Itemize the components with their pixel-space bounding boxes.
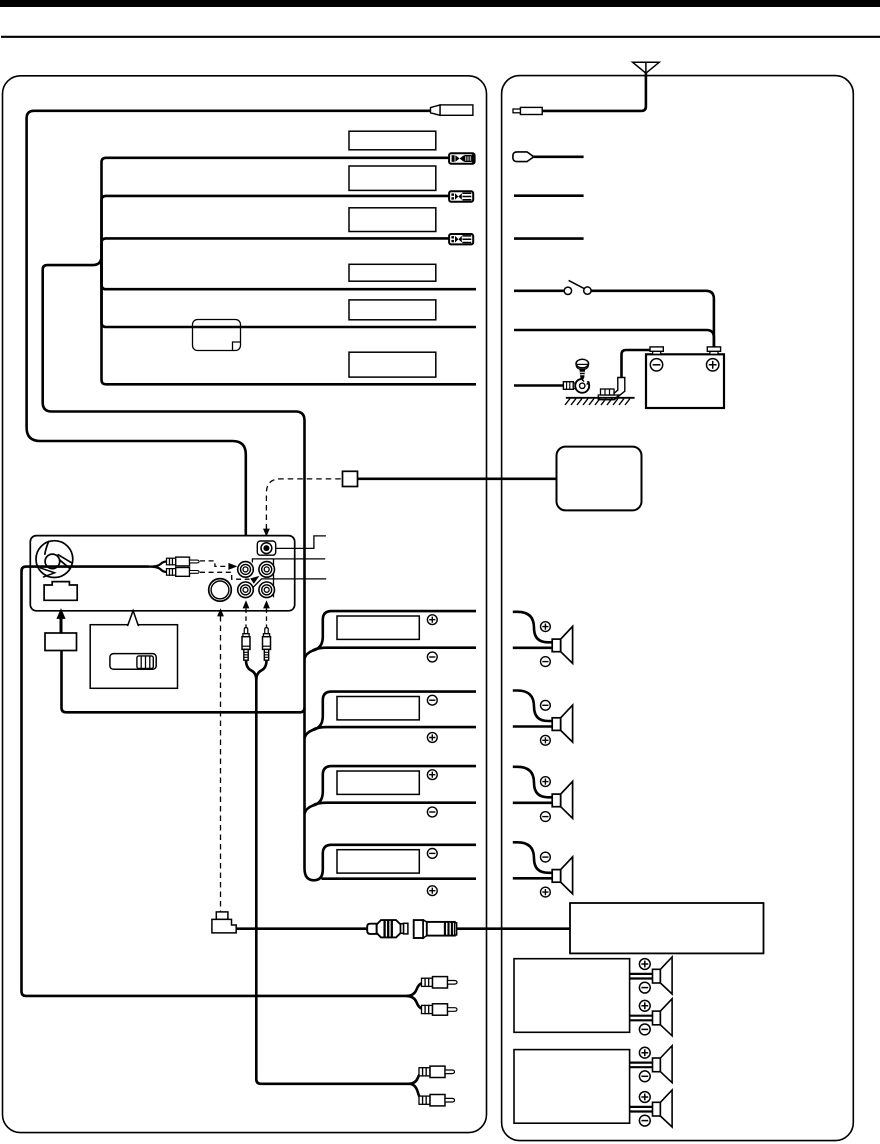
- RCA jack L-top: [238, 562, 254, 578]
- amplifier label box: [570, 903, 764, 953]
- RCA cord Y-split near head unit: [149, 562, 167, 572]
- polarity signs sub speaker: [639, 959, 650, 970]
- ISO connector mark: [44, 582, 77, 601]
- speaker front L: [552, 626, 572, 663]
- RCA plug to jack (top): [167, 557, 200, 566]
- callout line: line out bottom: [252, 579, 326, 588]
- wire: to amplifier: [457, 927, 570, 930]
- dashed lead plug-top to jack: [200, 561, 228, 567]
- RCA pair 2 Y-split: [409, 1072, 423, 1100]
- RCA plug out 2a: [419, 1066, 455, 1077]
- ring terminal lug taper: [573, 383, 579, 389]
- wire: power lead 1: [102, 196, 450, 264]
- arrow into head unit: [60, 618, 63, 634]
- wire: speaker pair front L +: [304, 611, 476, 659]
- DIN changer connector: [209, 579, 232, 602]
- wire: line-in cord merge: [246, 660, 409, 1084]
- label box pair rear R: [337, 850, 419, 873]
- polarity signs speaker rear L: [541, 777, 551, 787]
- ring terminal crimp: [563, 382, 573, 390]
- RCA plug out 2b: [419, 1095, 455, 1106]
- polarity signs pair front R: [427, 695, 437, 705]
- RCA pair 1 Y-split: [406, 983, 422, 1008]
- wire: remote lead to harness: [62, 651, 305, 713]
- wire: speaker rear L + lead: [513, 767, 552, 798]
- wire: sub speaker leads: [630, 1016, 653, 1021]
- wire: speaker front L + lead: [513, 612, 552, 643]
- accessory connector: [513, 152, 534, 162]
- RCA jack R-top: [259, 562, 275, 578]
- RCA plug up R: [263, 628, 271, 661]
- polarity signs pair front L: [427, 615, 437, 625]
- wire: plug to inline connector: [236, 927, 366, 930]
- RCA plug out 1b: [422, 1004, 458, 1015]
- sub speaker: [653, 1090, 673, 1127]
- antenna male plug: [520, 107, 542, 114]
- ground strap: [607, 378, 625, 400]
- wire: speaker pair front L -: [313, 648, 476, 651]
- polarity signs pair rear L: [427, 770, 437, 780]
- wire: changer cord to bottom RCA pair 1: [22, 567, 407, 996]
- inline connector female: [414, 920, 457, 938]
- GPS antenna unit: [557, 447, 642, 511]
- wire: speaker rear R + lead: [513, 842, 552, 873]
- callout line: line out top: [252, 559, 325, 597]
- wire: speaker front R - lead: [513, 725, 552, 728]
- sub speaker: [653, 957, 673, 994]
- wire: GPS antenna cord: [358, 477, 557, 480]
- wire: accessory lead: [534, 156, 584, 159]
- label box L1: [349, 131, 436, 150]
- wire: antenna adapter lead: [27, 111, 431, 546]
- polarity signs sub speaker: [639, 1047, 650, 1058]
- dashed lead plug-bottom to jack: [200, 572, 250, 579]
- header bar: [0, 0, 880, 7]
- label box L4: [349, 264, 436, 281]
- antenna input jack: [257, 541, 275, 555]
- wire: speaker pair front R -: [313, 727, 476, 730]
- chassis ground hatch: [566, 397, 635, 399]
- battery terminal -: [653, 351, 661, 354]
- dashed lead: line-in plug: [245, 608, 247, 627]
- wire: speaker front L - lead: [513, 646, 552, 649]
- sub speaker: [653, 999, 673, 1036]
- head unit rear panel: [30, 536, 294, 611]
- inline connector male: [367, 920, 408, 937]
- polarity signs speaker front R: [541, 700, 551, 710]
- callout line: antenna jack: [276, 536, 326, 549]
- connector: antenna adapter: [431, 105, 441, 115]
- GPS lead connector block: [343, 471, 358, 486]
- wire: ignition lead with switch: [514, 289, 564, 292]
- wire: speaker pair rear L +: [304, 766, 476, 814]
- wire: ground lead: [514, 384, 563, 387]
- RCA jack R-bottom: [259, 582, 275, 598]
- wire: antenna cord: [542, 73, 646, 111]
- RCA plug up L: [242, 628, 250, 661]
- connector: spade terminal 1: [449, 191, 473, 201]
- wire: fuse lead (harness trunk top): [102, 158, 450, 264]
- label box pair rear L: [337, 771, 419, 794]
- dashed lead: GPS antenna into jack: [266, 479, 342, 530]
- antenna symbol: [633, 62, 660, 73]
- RCA plug out 1a: [422, 977, 458, 988]
- battery + sign: [707, 359, 719, 371]
- connector: spade terminal 2: [449, 234, 473, 244]
- wire: speaker pair rear R -: [322, 877, 477, 880]
- wire: battery lead: [514, 330, 714, 347]
- polarity signs speaker front L: [541, 622, 551, 632]
- wire: battery negative to ground: [622, 350, 651, 378]
- wire: power lead 2: [102, 238, 450, 264]
- wire: speaker rear R - lead: [513, 877, 552, 880]
- left panel border: [3, 76, 487, 1133]
- wire: bare lead 2 (with tag): [102, 264, 477, 327]
- dashed lead: line-in plug: [266, 608, 268, 627]
- RCA plug to jack (bottom): [167, 568, 200, 577]
- label box L2: [349, 166, 436, 190]
- header rule: [1, 36, 880, 38]
- bolt block on body: [598, 395, 619, 400]
- polarity signs pair rear R: [427, 849, 437, 859]
- wire: harness to unit + speaker trunk: [43, 256, 476, 880]
- label box L5: [349, 300, 436, 320]
- wire: speaker rear L - lead: [513, 801, 552, 804]
- wire: speaker pair rear L -: [313, 803, 476, 806]
- RCA jack L-bottom: [238, 582, 254, 598]
- fan mark on head unit: [36, 541, 73, 578]
- wire: bare lead r2: [514, 237, 584, 240]
- battery - sign: [650, 359, 662, 371]
- tag label on lead 2: [193, 320, 241, 351]
- label box pair front L: [337, 616, 419, 639]
- label box pair front R: [337, 697, 419, 720]
- remote lead box: [45, 633, 77, 651]
- wire: bare lead 1: [102, 264, 477, 289]
- speaker rear L: [552, 781, 572, 818]
- slide switch: [110, 654, 156, 670]
- sub speaker: [653, 1046, 673, 1083]
- speaker rear R: [552, 857, 572, 894]
- switch detail box: [90, 625, 177, 689]
- ring terminal: [575, 379, 589, 393]
- label box L3: [349, 208, 436, 232]
- wire: sub speaker leads: [630, 1063, 653, 1068]
- right-angle mini plug: [216, 912, 228, 920]
- wire: speaker pair front R +: [304, 692, 476, 739]
- wire: sub speaker leads: [630, 1107, 653, 1112]
- wire: bare lead 3 (harness trunk bottom): [102, 264, 477, 384]
- subwoofer box 1: [514, 959, 630, 1033]
- ignition switch: [564, 287, 571, 294]
- dashed lead: DIN changer cord: [220, 616, 222, 912]
- wire: bare lead r1: [514, 194, 584, 197]
- subwoofer box 2: [514, 1050, 630, 1124]
- battery: [646, 354, 724, 408]
- label box L6: [349, 352, 436, 377]
- speaker front R: [552, 705, 572, 742]
- wire: speaker front R + lead: [513, 691, 552, 722]
- right panel border: [502, 76, 854, 1141]
- wire: sub speaker leads: [630, 974, 653, 979]
- connector: fuse holder: [449, 153, 475, 164]
- polarity signs sub speaker: [639, 1000, 650, 1011]
- polarity signs sub speaker: [639, 1092, 650, 1103]
- mounting screw: [576, 359, 589, 368]
- polarity signs speaker rear R: [541, 852, 551, 862]
- battery terminal +: [710, 351, 718, 354]
